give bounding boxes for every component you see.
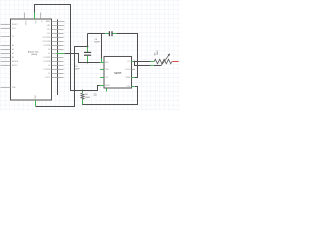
wire VIN: from Arduino top pin up, right, down the long vertical and along y=90.5 [35, 5, 98, 91]
capacitor C4 (vertical plates on y=33.5 wire) [94, 31, 116, 43]
svg-text:D12: D12 [47, 33, 50, 35]
Arduino top pin legs [24, 13, 26, 20]
node wire y=33.5 right of C4 down to 555 VCC side [116, 34, 137, 62]
svg-text:D2: D2 [48, 73, 50, 75]
Arduino right pin legs [52, 22, 65, 78]
svg-text:D6 PWM: D6 PWM [44, 57, 51, 59]
capacitor C3 (horizontal plates, on vertical branch x=87.5) [75, 47, 91, 71]
Arduino bottom GND pin green leg [35, 100, 37, 107]
junction R4 top x=82.5 y=90.5 [82, 90, 84, 92]
potentiometer R5 (horizontal, arrow wiper) [150, 50, 178, 66]
svg-text:IOREF: IOREF [24, 21, 26, 26]
junction GND x=74.5 y=90.5 [74, 90, 76, 92]
svg-text:D10 PWM: D10 PWM [43, 41, 51, 43]
svg-text:D3 PWM: D3 PWM [44, 69, 51, 71]
svg-text:CONT: CONT [126, 86, 130, 88]
svg-text:D5 PWM: D5 PWM [44, 61, 51, 63]
svg-text:(Rev3): (Rev3) [31, 54, 37, 56]
Arduino connected right pin D7 green leg [57, 53, 65, 55]
GND wire from Arduino bottom pin, up the x=74.5 vertical to C3 top junction [36, 47, 88, 107]
Arduino top pin labels (vertical) [24, 21, 42, 26]
svg-text:THRES: THRES [125, 77, 130, 79]
svg-text:A0: A0 [12, 44, 14, 47]
555 IC U2 [104, 57, 132, 89]
555 right pin legs [132, 62, 136, 87]
resistor R4 (vertical) [81, 91, 90, 105]
wire 555 right pin1 to potentiometer R5 [135, 61, 150, 63]
dangling vertical wire right of Arduino [57, 19, 59, 95]
svg-text:10kΩ: 10kΩ [85, 97, 90, 99]
Arduino left pin legs [1, 25, 11, 88]
Arduino pin labels left [12, 24, 19, 89]
svg-text:100nF: 100nF [94, 42, 101, 44]
jog down to wiper feed wire [135, 62, 151, 66]
junction C3 bottom x=87.5 y=62.5 [87, 62, 89, 64]
junction tie x=137.5 y=61.5 [137, 61, 139, 63]
svg-text:D8: D8 [48, 49, 50, 51]
svg-text:A2: A2 [12, 52, 14, 55]
top pin VIN green leg [34, 13, 36, 20]
Arduino pin labels right [43, 20, 52, 79]
555 pin labels [105, 62, 110, 87]
svg-text:A5/SCL: A5/SCL [12, 64, 18, 67]
555 left pin legs [100, 63, 104, 86]
junction jog x=134.5 y=61.5 [134, 61, 136, 63]
svg-text:10nF: 10nF [75, 68, 80, 70]
Arduino Uno U1 [11, 19, 52, 100]
svg-text:D7: D7 [48, 53, 50, 55]
svg-text:A4/SDA: A4/SDA [12, 60, 19, 63]
wire Arduino D7 pin to 555 TRIG pin (jog at x=78.5) [64, 54, 104, 63]
junction C3 top x=87.5 y=46.5 [87, 46, 89, 48]
wire rising from y=90.5 run to 555 GND pin [98, 86, 105, 91]
svg-text:DISCH: DISCH [126, 69, 131, 71]
svg-text:D13: D13 [47, 29, 50, 31]
svg-text:A1: A1 [12, 48, 14, 51]
tie wire 555 right pin1 to right pin3 [131, 62, 137, 78]
svg-text:10kΩ: 10kΩ [157, 50, 159, 55]
svg-text:AREF: AREF [46, 20, 51, 23]
svg-text:RESET: RESET [105, 85, 110, 87]
svg-text:D1/TX: D1/TX [46, 77, 52, 79]
svg-text:D11 PWM: D11 PWM [43, 37, 51, 39]
555 green connected pin stubs [100, 59, 135, 92]
svg-text:NE555: NE555 [114, 72, 122, 75]
svg-text:D4: D4 [48, 65, 50, 67]
svg-text:RESET: RESET [12, 24, 18, 26]
bottom loop: 555 right pin4 right, down, left to R4 bottom [83, 87, 138, 105]
node wire y=33.5 left of C4 [88, 33, 105, 35]
svg-text:A3: A3 [12, 56, 14, 59]
vertical from y=33.5 down to 555 left pin1 [101, 34, 103, 59]
svg-text:OUT: OUT [105, 77, 108, 79]
svg-text:D9 PWM: D9 PWM [44, 45, 51, 47]
vertical C3 branch x=87.5 [87, 34, 89, 47]
